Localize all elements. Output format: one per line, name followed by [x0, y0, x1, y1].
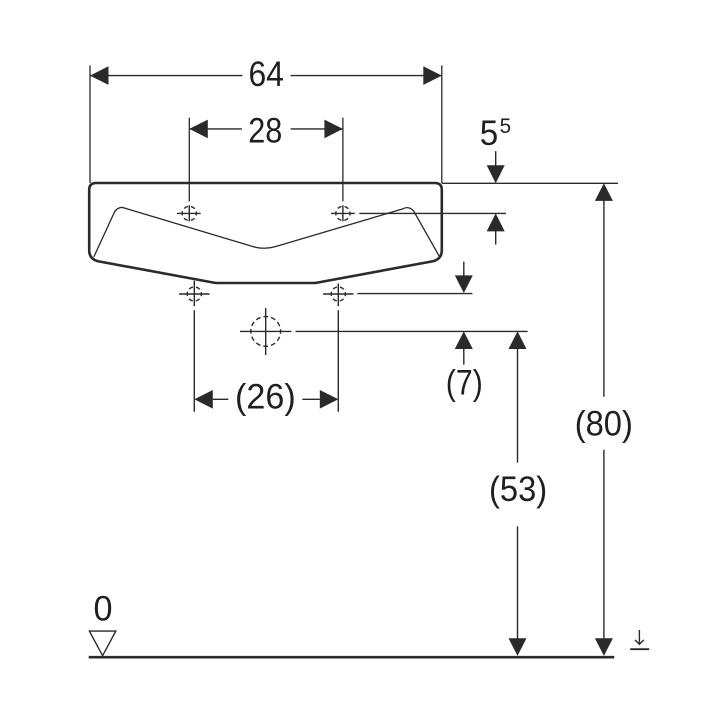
- dim 64 extension line right: [441, 65, 443, 183]
- dim 7 bottom arrow (up): [455, 331, 473, 349]
- faucet hole left cross: [177, 205, 201, 221]
- svg-text:64: 64: [248, 55, 284, 94]
- washbasin outline: [89, 183, 442, 283]
- dim 26 line: [213, 398, 320, 400]
- floor line: [89, 656, 615, 659]
- bolt hole left (dashed circle): [187, 287, 201, 301]
- svg-text:(7): (7): [446, 363, 483, 402]
- svg-text:28: 28: [248, 111, 282, 150]
- zero level triangle: [89, 631, 115, 656]
- washbasin inner rim line: [94, 207, 440, 257]
- svg-text:5: 5: [480, 114, 499, 153]
- svg-text:(26): (26): [235, 378, 296, 417]
- dim 53 arrow bottom (down): [509, 638, 527, 656]
- faucet hole right cross: [331, 205, 355, 221]
- bolt hole right vertical line: [337, 284, 339, 412]
- dim 64 arrow right: [423, 66, 442, 85]
- bolt hole left vertical line: [193, 281, 195, 412]
- dim 28 arrow left: [189, 120, 208, 139]
- faucet hole right (dashed circle): [336, 206, 350, 220]
- drain level reference line: [240, 330, 528, 332]
- svg-text:5: 5: [500, 114, 512, 138]
- dim 53 vertical line: [517, 348, 519, 640]
- dim 64 extension line left: [89, 65, 91, 183]
- svg-text:0: 0: [94, 589, 113, 628]
- dim 28 extension line left: [188, 118, 190, 202]
- bolt hole right (dashed circle): [331, 287, 345, 301]
- svg-text:(53): (53): [489, 470, 547, 509]
- faucet level reference line: [359, 212, 506, 214]
- dim 5.5 bottom arrow (up): [487, 213, 505, 231]
- drain dashed circle: [251, 317, 281, 347]
- dim 28 extension line right: [342, 118, 344, 202]
- dim 80 arrow top (up): [595, 183, 613, 201]
- floor datum symbol (arrow with underline): [638, 630, 640, 644]
- svg-text:(80): (80): [575, 405, 633, 444]
- bolt level reference line: [357, 293, 472, 295]
- dim 64 line: [90, 75, 442, 77]
- dim 7 top arrow (down): [463, 262, 465, 278]
- dim 80 arrow bottom (down): [595, 638, 613, 656]
- bolt hole right cross: [323, 293, 353, 295]
- dim 5.5 top arrow (down): [495, 151, 497, 168]
- dim 64 arrow left: [90, 66, 109, 85]
- dim 28 line: [189, 128, 343, 130]
- dim 53 arrow top (up): [509, 331, 527, 349]
- drain vertical centerline: [265, 308, 267, 355]
- faucet hole left (dashed circle): [182, 206, 196, 220]
- bolt hole left cross: [179, 293, 209, 295]
- top level reference line: [442, 182, 618, 184]
- dim 26 arrow right: [320, 390, 339, 409]
- dim 80 vertical line: [603, 200, 605, 640]
- dim 26 arrow left: [194, 390, 213, 409]
- dim 28 arrow right: [324, 120, 343, 139]
